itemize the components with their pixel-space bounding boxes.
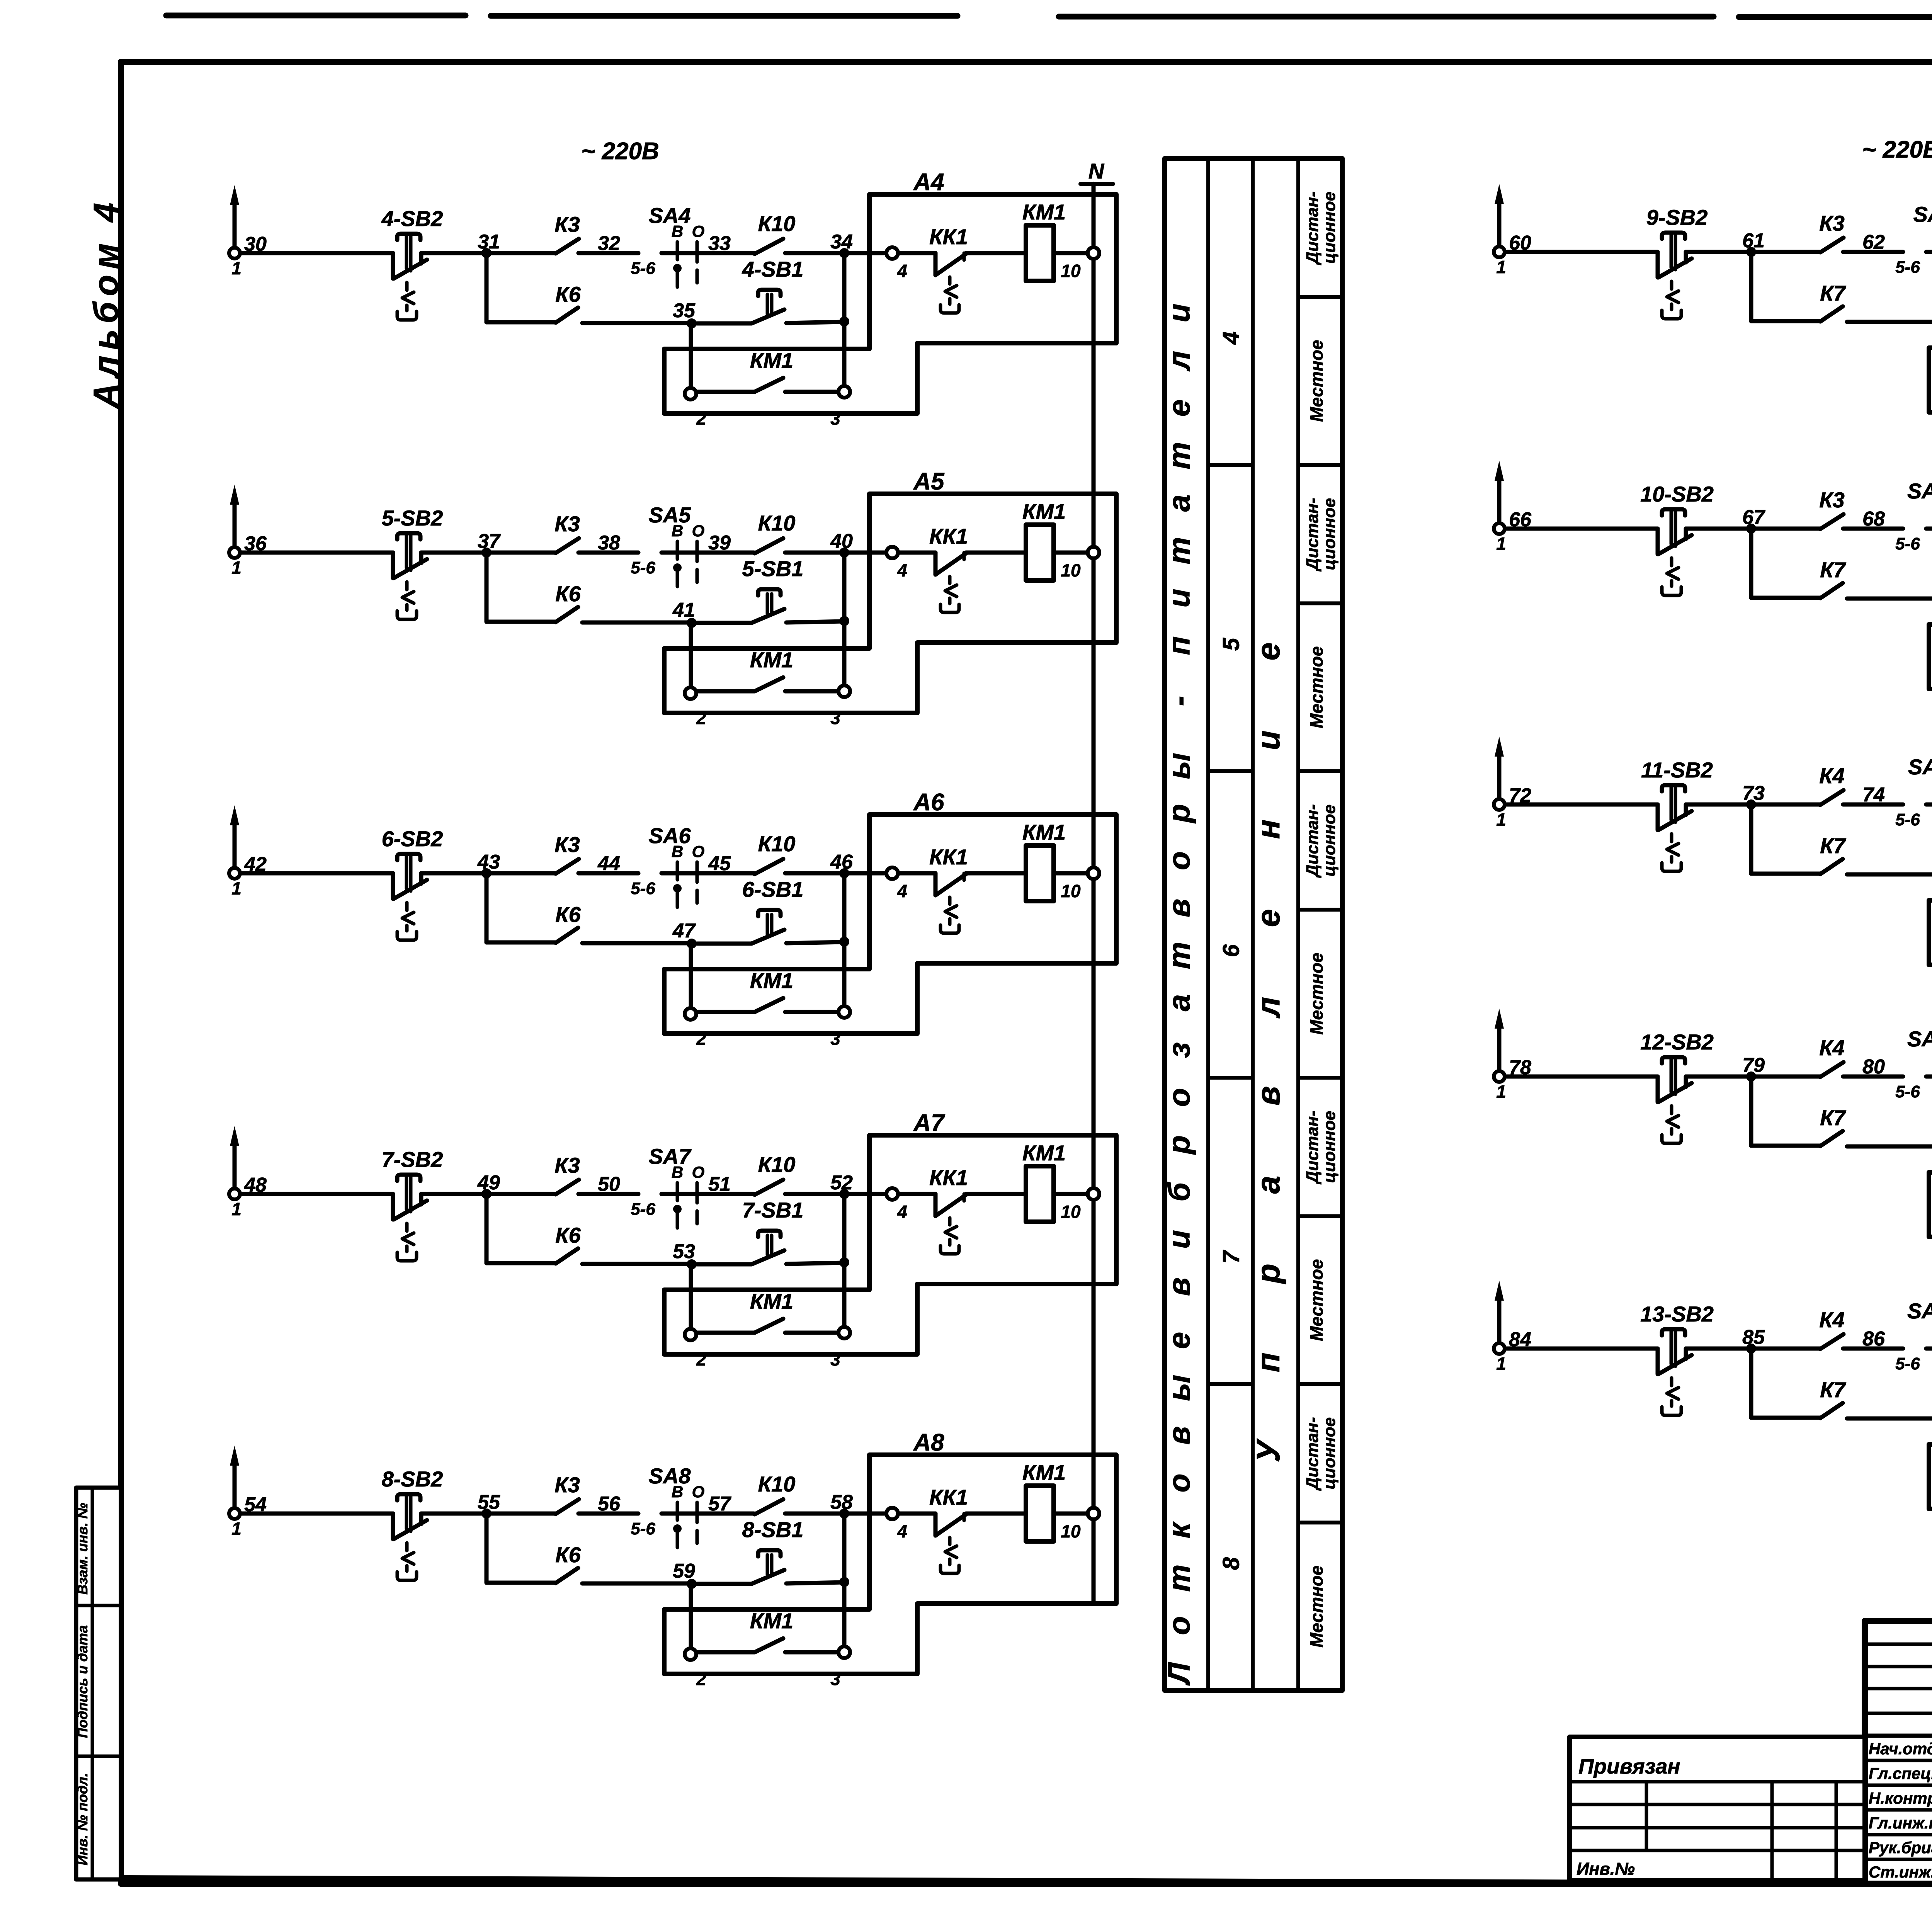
svg-text:КК1: КК1 [929, 224, 968, 249]
svg-text:а: а [1250, 1176, 1286, 1194]
svg-text:Нач.отд: Нач.отд [1869, 1740, 1932, 1758]
svg-text:р: р [1162, 1135, 1196, 1155]
svg-text:5-SB1: 5-SB1 [742, 556, 804, 581]
svg-text:32: 32 [598, 232, 620, 255]
svg-text:О: О [692, 1163, 705, 1181]
svg-text:5-6: 5-6 [1895, 1354, 1920, 1373]
svg-text:ционное: ционное [1320, 1417, 1339, 1490]
svg-text:Местное: Местное [1306, 646, 1327, 728]
svg-text:Дистан-: Дистан- [1303, 498, 1322, 572]
svg-text:43: 43 [477, 851, 500, 873]
svg-text:1: 1 [1496, 257, 1506, 277]
svg-text:Инв. № подл.: Инв. № подл. [75, 1773, 90, 1865]
svg-text:60: 60 [1509, 232, 1531, 254]
svg-text:3: 3 [830, 1669, 840, 1689]
svg-text:80: 80 [1862, 1056, 1885, 1078]
svg-text:е: е [1162, 1332, 1196, 1349]
svg-text:О: О [692, 842, 705, 861]
svg-text:12-SB2: 12-SB2 [1640, 1030, 1714, 1054]
svg-text:3: 3 [830, 1349, 840, 1369]
svg-text:4: 4 [897, 560, 907, 580]
svg-text:К4: К4 [1819, 1308, 1845, 1332]
svg-text:2: 2 [696, 1669, 706, 1689]
svg-text:КМ1: КМ1 [750, 348, 793, 372]
svg-text:К3: К3 [554, 1153, 580, 1177]
svg-text:А5: А5 [913, 468, 945, 495]
svg-text:33: 33 [708, 232, 731, 255]
svg-text:В: В [672, 222, 683, 240]
svg-text:1: 1 [231, 1519, 241, 1539]
svg-text:О: О [692, 222, 705, 240]
svg-text:н: н [1250, 820, 1286, 839]
svg-text:Дистан-: Дистан- [1303, 804, 1322, 878]
svg-text:Гл.спец.: Гл.спец. [1869, 1764, 1932, 1782]
svg-text:47: 47 [672, 920, 696, 942]
svg-text:8-SB1: 8-SB1 [742, 1517, 804, 1542]
svg-text:К4: К4 [1819, 1036, 1845, 1060]
svg-text:74: 74 [1862, 784, 1885, 806]
svg-text:2: 2 [696, 708, 706, 728]
svg-text:КМ1: КМ1 [1022, 1460, 1066, 1485]
svg-text:К6: К6 [555, 1543, 581, 1567]
svg-text:5-6: 5-6 [631, 1519, 655, 1538]
svg-text:N: N [1088, 159, 1105, 183]
svg-text:35: 35 [673, 299, 696, 322]
svg-text:з: з [1162, 1042, 1196, 1058]
svg-text:ционное: ционное [1320, 498, 1339, 570]
svg-text:51: 51 [708, 1173, 731, 1196]
svg-text:-: - [1162, 696, 1196, 706]
svg-text:КМ1: КМ1 [1022, 200, 1066, 224]
svg-text:к: к [1162, 1521, 1196, 1538]
svg-text:85: 85 [1742, 1326, 1765, 1349]
svg-text:84: 84 [1509, 1328, 1531, 1351]
svg-text:р: р [1162, 804, 1196, 824]
svg-text:10: 10 [1061, 881, 1081, 901]
svg-text:т: т [1162, 442, 1196, 469]
svg-text:5-6: 5-6 [631, 558, 655, 577]
svg-text:36: 36 [244, 532, 267, 555]
svg-text:ционное: ционное [1320, 192, 1339, 264]
svg-text:в: в [1250, 1086, 1286, 1106]
svg-text:SА7: SА7 [649, 1144, 692, 1168]
svg-text:~ 220В: ~ 220В [581, 138, 659, 165]
svg-text:2: 2 [696, 1029, 706, 1049]
svg-text:К3: К3 [554, 1473, 580, 1497]
svg-text:42: 42 [244, 853, 267, 876]
svg-text:в: в [1162, 1426, 1196, 1445]
svg-text:т: т [1162, 1564, 1196, 1592]
svg-text:5-6: 5-6 [631, 879, 655, 898]
svg-text:Н.контр: Н.контр [1869, 1789, 1932, 1807]
svg-text:К6: К6 [555, 582, 581, 606]
svg-text:Гл.инж.пр: Гл.инж.пр [1869, 1814, 1932, 1832]
svg-text:4-SB1: 4-SB1 [742, 257, 804, 281]
svg-text:SА4: SА4 [649, 203, 691, 228]
svg-text:72: 72 [1509, 784, 1531, 807]
svg-text:61: 61 [1742, 230, 1765, 252]
svg-text:р: р [1250, 1264, 1286, 1284]
svg-text:49: 49 [477, 1172, 500, 1194]
svg-text:56: 56 [598, 1493, 621, 1515]
svg-text:4: 4 [897, 1521, 907, 1541]
svg-text:Местное: Местное [1306, 1259, 1327, 1341]
svg-text:4: 4 [1218, 332, 1244, 345]
svg-text:Подпись и дата: Подпись и дата [75, 1625, 90, 1738]
svg-text:31: 31 [478, 231, 500, 253]
svg-text:50: 50 [598, 1173, 620, 1196]
svg-text:КМ1: КМ1 [750, 1609, 793, 1633]
svg-text:SА11: SА11 [1908, 755, 1932, 779]
svg-text:1: 1 [231, 878, 241, 898]
svg-text:п: п [1250, 1352, 1286, 1372]
svg-text:62: 62 [1862, 231, 1885, 253]
svg-text:К7: К7 [1820, 1105, 1846, 1130]
svg-text:1: 1 [1496, 1354, 1506, 1374]
svg-text:Инв.№: Инв.№ [1577, 1859, 1635, 1879]
svg-text:В: В [672, 842, 683, 861]
svg-text:КМ1: КМ1 [750, 1289, 793, 1313]
svg-text:Местное: Местное [1306, 340, 1327, 422]
svg-text:Привязан: Привязан [1578, 1754, 1680, 1778]
svg-text:КМ1: КМ1 [750, 648, 793, 672]
svg-text:11-SB2: 11-SB2 [1641, 758, 1713, 782]
svg-text:Дистан-: Дистан- [1303, 1111, 1322, 1185]
svg-text:2: 2 [696, 408, 706, 429]
svg-text:К10: К10 [758, 211, 796, 236]
svg-text:К6: К6 [555, 282, 581, 306]
svg-text:КМ1: КМ1 [1022, 1141, 1066, 1165]
svg-text:79: 79 [1742, 1054, 1765, 1077]
svg-text:о: о [1162, 851, 1196, 870]
svg-text:К10: К10 [758, 832, 796, 856]
svg-text:68: 68 [1862, 508, 1885, 530]
svg-text:~ 220В: ~ 220В [1862, 136, 1932, 163]
svg-text:и: и [1162, 1230, 1196, 1249]
svg-text:л: л [1162, 351, 1196, 372]
svg-text:8-SB2: 8-SB2 [382, 1467, 443, 1491]
svg-text:13-SB2: 13-SB2 [1640, 1302, 1714, 1326]
svg-text:1: 1 [1496, 810, 1506, 830]
svg-text:44: 44 [597, 852, 620, 875]
svg-text:5-6: 5-6 [1895, 534, 1920, 553]
svg-text:т: т [1162, 942, 1196, 969]
svg-text:а: а [1162, 994, 1196, 1012]
svg-text:53: 53 [673, 1240, 695, 1263]
svg-text:7: 7 [1218, 1250, 1244, 1264]
svg-text:5-6: 5-6 [631, 259, 655, 278]
svg-text:41: 41 [672, 599, 695, 621]
svg-text:5-6: 5-6 [631, 1200, 655, 1219]
svg-text:4: 4 [897, 1202, 907, 1222]
svg-text:4-SB2: 4-SB2 [381, 206, 443, 231]
svg-text:К6: К6 [555, 902, 581, 927]
svg-text:55: 55 [478, 1491, 500, 1514]
svg-text:4: 4 [897, 881, 907, 901]
svg-text:е: е [1250, 909, 1286, 927]
svg-text:SА9: SА9 [1913, 202, 1932, 226]
svg-text:К3: К3 [554, 832, 580, 857]
svg-text:SА12: SА12 [1907, 1027, 1932, 1051]
svg-text:и: и [1162, 589, 1196, 608]
svg-text:ы: ы [1162, 1375, 1196, 1401]
svg-text:SА10: SА10 [1907, 479, 1932, 503]
svg-text:6-SB1: 6-SB1 [742, 877, 804, 901]
svg-text:Альбом 4: Альбом 4 [87, 197, 126, 409]
svg-text:39: 39 [708, 532, 731, 554]
svg-text:К7: К7 [1820, 833, 1846, 858]
svg-text:о: о [1162, 1088, 1196, 1107]
svg-text:К10: К10 [758, 1472, 796, 1496]
svg-text:73: 73 [1742, 782, 1765, 804]
svg-text:1: 1 [231, 558, 241, 578]
svg-text:Взам. инв. №: Взам. инв. № [75, 1503, 90, 1595]
svg-text:К4: К4 [1819, 764, 1845, 788]
svg-text:в: в [1162, 899, 1196, 917]
svg-text:л: л [1250, 997, 1286, 1019]
svg-text:86: 86 [1862, 1328, 1885, 1350]
svg-text:О: О [692, 1483, 705, 1501]
svg-text:ционное: ционное [1320, 804, 1339, 877]
svg-text:Ст.инж.: Ст.инж. [1869, 1863, 1932, 1881]
svg-text:К10: К10 [758, 1152, 796, 1177]
svg-text:54: 54 [244, 1493, 267, 1516]
svg-text:40: 40 [830, 530, 853, 553]
svg-text:58: 58 [830, 1491, 853, 1514]
svg-text:8: 8 [1218, 1557, 1244, 1570]
svg-text:7-SB2: 7-SB2 [382, 1147, 443, 1172]
svg-text:ционное: ционное [1320, 1111, 1339, 1183]
svg-text:SА8: SА8 [649, 1464, 691, 1488]
svg-text:59: 59 [673, 1560, 695, 1582]
svg-text:К3: К3 [1819, 211, 1845, 235]
svg-text:10: 10 [1061, 1202, 1081, 1222]
svg-text:е: е [1250, 643, 1286, 661]
svg-text:КМ1: КМ1 [1022, 499, 1066, 524]
svg-text:е: е [1162, 400, 1196, 417]
svg-text:и: и [1250, 730, 1286, 750]
svg-text:КК1: КК1 [929, 524, 968, 548]
svg-text:38: 38 [598, 532, 620, 554]
svg-text:К7: К7 [1820, 558, 1846, 582]
svg-text:4: 4 [897, 261, 907, 281]
svg-text:б: б [1162, 1182, 1196, 1202]
svg-text:SА5: SА5 [649, 503, 691, 527]
svg-text:Дистан-: Дистан- [1303, 191, 1322, 265]
svg-text:10-SB2: 10-SB2 [1640, 482, 1714, 506]
svg-text:А6: А6 [913, 789, 944, 816]
svg-text:5: 5 [1218, 637, 1244, 651]
svg-text:т: т [1162, 537, 1196, 564]
svg-text:45: 45 [708, 852, 731, 875]
svg-text:А4: А4 [913, 169, 944, 196]
svg-text:О: О [692, 522, 705, 540]
svg-text:30: 30 [244, 233, 267, 255]
svg-text:1: 1 [231, 1199, 241, 1219]
svg-text:9-SB2: 9-SB2 [1646, 205, 1708, 230]
svg-text:34: 34 [830, 231, 853, 253]
svg-text:Л: Л [1162, 1662, 1196, 1685]
svg-text:о: о [1162, 1474, 1196, 1493]
svg-text:66: 66 [1509, 509, 1532, 531]
svg-text:6-SB2: 6-SB2 [382, 827, 443, 851]
svg-text:В: В [672, 1483, 683, 1501]
svg-text:У: У [1250, 1438, 1286, 1462]
svg-text:1: 1 [231, 258, 241, 278]
svg-text:67: 67 [1742, 506, 1765, 529]
svg-text:7-SB1: 7-SB1 [742, 1198, 804, 1222]
svg-text:SА6: SА6 [649, 823, 691, 848]
svg-text:3: 3 [830, 708, 840, 728]
svg-text:КК1: КК1 [929, 1165, 968, 1190]
svg-text:52: 52 [830, 1172, 853, 1194]
svg-text:6: 6 [1218, 944, 1244, 957]
svg-text:Местное: Местное [1306, 953, 1327, 1035]
svg-text:К3: К3 [554, 212, 580, 236]
svg-text:К7: К7 [1820, 1378, 1846, 1402]
svg-text:5-6: 5-6 [1895, 810, 1920, 829]
svg-text:57: 57 [708, 1493, 731, 1515]
svg-text:А8: А8 [913, 1429, 944, 1456]
svg-text:10: 10 [1061, 560, 1081, 580]
svg-text:К3: К3 [554, 512, 580, 536]
svg-text:п: п [1162, 636, 1196, 655]
svg-text:Дистан-: Дистан- [1303, 1417, 1322, 1491]
svg-text:78: 78 [1509, 1056, 1531, 1079]
svg-text:К10: К10 [758, 511, 796, 535]
svg-text:1: 1 [1496, 534, 1506, 554]
svg-text:о: о [1162, 1616, 1196, 1635]
svg-text:5-6: 5-6 [1895, 258, 1920, 277]
svg-text:КК1: КК1 [929, 845, 968, 869]
svg-text:10: 10 [1061, 1521, 1081, 1541]
svg-text:5-SB2: 5-SB2 [382, 506, 443, 530]
svg-text:Рук.бриг.: Рук.бриг. [1869, 1838, 1932, 1857]
svg-text:10: 10 [1061, 261, 1081, 281]
svg-text:и: и [1162, 304, 1196, 323]
svg-text:К7: К7 [1820, 281, 1846, 305]
svg-text:37: 37 [478, 530, 501, 553]
svg-text:5-6: 5-6 [1895, 1082, 1920, 1101]
svg-text:КМ1: КМ1 [1022, 820, 1066, 844]
svg-text:ы: ы [1162, 753, 1196, 779]
svg-text:46: 46 [830, 851, 853, 873]
svg-text:3: 3 [830, 408, 840, 429]
svg-text:К3: К3 [1819, 488, 1845, 512]
svg-text:КК1: КК1 [929, 1485, 968, 1509]
svg-text:А7: А7 [913, 1110, 945, 1136]
svg-text:В: В [672, 1163, 683, 1181]
svg-text:2: 2 [696, 1349, 706, 1369]
svg-text:в: в [1162, 1277, 1196, 1296]
svg-text:Местное: Местное [1306, 1566, 1327, 1648]
svg-text:а: а [1162, 495, 1196, 512]
svg-text:SА13: SА13 [1907, 1299, 1932, 1323]
svg-text:К6: К6 [555, 1223, 581, 1247]
svg-text:3: 3 [830, 1029, 840, 1049]
svg-text:48: 48 [244, 1174, 267, 1196]
svg-text:1: 1 [1496, 1082, 1506, 1102]
svg-text:КМ1: КМ1 [750, 968, 793, 993]
svg-text:В: В [672, 522, 683, 540]
